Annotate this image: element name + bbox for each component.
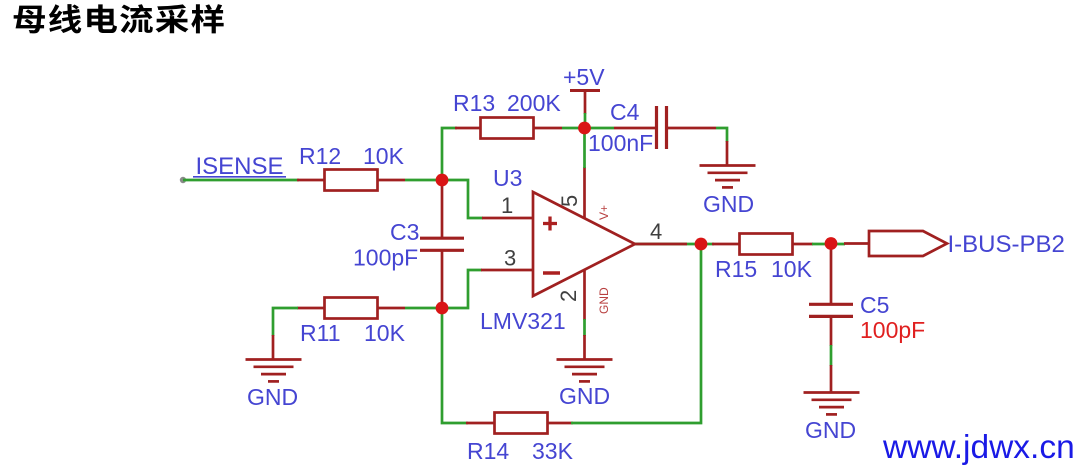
wire node C to R15 — [701, 243, 714, 246]
svg-text:U3: U3 — [493, 165, 522, 191]
svg-text:I-BUS-PB2: I-BUS-PB2 — [948, 231, 1065, 258]
wire node A to pin1 jog — [442, 180, 483, 218]
svg-text:10K: 10K — [363, 143, 405, 169]
svg-text:200K: 200K — [507, 90, 561, 116]
port I-BUS-PB2 — [869, 231, 947, 256]
wire pin4 to node C — [635, 243, 701, 246]
capacitor C5 — [809, 292, 925, 343]
svg-text:R13: R13 — [453, 90, 495, 116]
svg-text:C3: C3 — [390, 219, 419, 245]
svg-text:1: 1 — [501, 193, 513, 218]
svg-text:GND: GND — [703, 191, 754, 217]
svg-text:GND: GND — [559, 383, 610, 409]
wire node B down to R14 — [442, 308, 468, 423]
node ISENSE terminal — [180, 177, 186, 183]
svg-text:V+: V+ — [597, 205, 611, 220]
svg-text:4: 4 — [650, 219, 662, 244]
title 母线电流采样 — [14, 4, 224, 33]
svg-text:+5V: +5V — [563, 64, 605, 90]
node A junction — [436, 174, 449, 187]
wire node B to pin3 jog — [442, 270, 482, 308]
svg-text:33K: 33K — [532, 438, 574, 464]
wire R14 to node C — [571, 244, 701, 423]
svg-text:GND: GND — [805, 417, 856, 443]
wire node A to C3 — [441, 180, 444, 238]
svg-text:R11: R11 — [300, 320, 341, 346]
wire C5 to GND4 — [830, 316, 833, 346]
svg-text:100pF: 100pF — [860, 317, 925, 343]
wire R13 to node B5V — [562, 127, 584, 130]
wire R12 to node A — [405, 179, 442, 182]
wire R15 to node D — [812, 243, 845, 246]
svg-text:100nF: 100nF — [588, 130, 653, 156]
svg-text:GND: GND — [597, 287, 611, 314]
wire C3 to node B — [441, 250, 444, 308]
wire node D to C5 — [830, 243, 833, 304]
resistor R12 — [297, 143, 405, 191]
svg-text:R15: R15 — [715, 256, 757, 282]
resistor R13 — [453, 90, 562, 139]
power +5V — [563, 64, 605, 114]
ground GND2 — [246, 360, 302, 382]
wire R11 to GND2 — [273, 308, 298, 336]
svg-text:10K: 10K — [364, 320, 406, 346]
resistor R11 — [297, 298, 406, 347]
svg-text:www.jdwx.cn: www.jdwx.cn — [882, 429, 1075, 466]
svg-text:R14: R14 — [467, 438, 509, 464]
wire ISENSE to R12 — [183, 179, 299, 182]
ground GND1 — [700, 166, 756, 188]
wire GND4 stub — [830, 365, 833, 392]
wire GND2 stub — [272, 335, 275, 359]
node D junction — [825, 237, 838, 250]
op-amp U3 LMV321 — [480, 165, 662, 334]
wire pin2 to GND3 — [583, 319, 586, 336]
svg-text:R12: R12 — [299, 143, 341, 169]
svg-text:3: 3 — [504, 246, 516, 271]
svg-text:ISENSE: ISENSE — [196, 153, 284, 180]
svg-text:2: 2 — [556, 290, 581, 302]
capacitor C3 — [353, 219, 464, 271]
wire pin5 to node B5V — [583, 128, 586, 168]
wire +5V to node B5V — [584, 113, 587, 128]
resistor R15 — [712, 234, 813, 283]
wire node B to R11 — [405, 307, 442, 310]
svg-text:100pF: 100pF — [353, 245, 418, 271]
svg-text:C4: C4 — [610, 99, 640, 125]
wire GND3 stub — [583, 335, 586, 359]
capacitor C4 — [588, 99, 716, 156]
wire node A up to R13 row — [442, 128, 457, 180]
svg-text:5: 5 — [557, 195, 582, 207]
ground GND4 — [804, 393, 860, 415]
svg-text:LMV321: LMV321 — [480, 308, 566, 334]
svg-text:10K: 10K — [771, 256, 813, 282]
wire C4 to GND1 — [716, 128, 727, 142]
resistor R14 — [466, 413, 574, 465]
ground GND3 — [557, 360, 613, 382]
wire GND1 stub — [726, 141, 729, 165]
node C junction — [695, 238, 708, 251]
node B5V junction — [578, 122, 591, 135]
node B junction — [436, 302, 449, 315]
svg-text:C5: C5 — [860, 292, 889, 318]
svg-text:GND: GND — [247, 384, 298, 410]
wire node B5V to C4 — [584, 127, 614, 130]
wire node D to port — [844, 242, 869, 245]
